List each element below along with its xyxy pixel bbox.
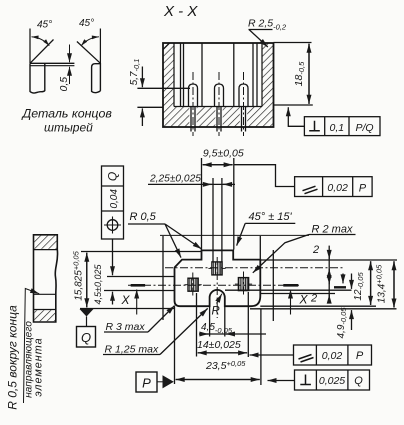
svg-text:0,02: 0,02 bbox=[327, 182, 348, 194]
svg-text:X - X: X - X bbox=[163, 3, 198, 20]
svg-text:R 3 max: R 3 max bbox=[106, 321, 146, 333]
svg-text:9,5±0,05: 9,5±0,05 bbox=[203, 148, 244, 160]
svg-text:Деталь концов: Деталь концов bbox=[21, 107, 113, 121]
svg-text:P: P bbox=[142, 376, 151, 391]
svg-text:Q: Q bbox=[106, 172, 120, 181]
svg-text:P: P bbox=[359, 183, 367, 195]
svg-text:0,02: 0,02 bbox=[322, 350, 343, 362]
svg-text:X: X bbox=[299, 293, 309, 307]
svg-text:P/Q: P/Q bbox=[355, 122, 373, 134]
svg-text:R 1,25 max: R 1,25 max bbox=[105, 344, 159, 356]
svg-text:0,04: 0,04 bbox=[109, 189, 120, 209]
svg-text:45°: 45° bbox=[79, 18, 94, 29]
svg-text:P: P bbox=[356, 350, 364, 362]
svg-text:R 0,5 вокруг конца: R 0,5 вокруг конца bbox=[6, 305, 20, 410]
svg-text:45°: 45° bbox=[37, 19, 52, 30]
svg-text:14±0,025: 14±0,025 bbox=[197, 339, 241, 351]
svg-text:2,25±0,025: 2,25±0,025 bbox=[149, 174, 201, 185]
svg-text:штырей: штырей bbox=[44, 121, 93, 135]
svg-text:R 0,5: R 0,5 bbox=[130, 211, 157, 223]
svg-text:4,5±0,025: 4,5±0,025 bbox=[93, 264, 103, 305]
svg-text:2: 2 bbox=[312, 244, 319, 256]
svg-text:0,025: 0,025 bbox=[319, 375, 345, 387]
svg-text:R 2 max: R 2 max bbox=[312, 224, 353, 236]
svg-text:элемента: элемента bbox=[33, 337, 45, 396]
svg-text:Q: Q bbox=[354, 375, 363, 387]
svg-text:Q: Q bbox=[81, 330, 91, 345]
svg-text:0,1: 0,1 bbox=[329, 122, 344, 134]
svg-text:45° ± 15': 45° ± 15' bbox=[249, 211, 293, 223]
svg-text:0,5: 0,5 bbox=[58, 77, 70, 92]
svg-text:2: 2 bbox=[310, 293, 317, 305]
svg-text:X: X bbox=[121, 293, 131, 307]
svg-text:R: R bbox=[212, 306, 220, 318]
